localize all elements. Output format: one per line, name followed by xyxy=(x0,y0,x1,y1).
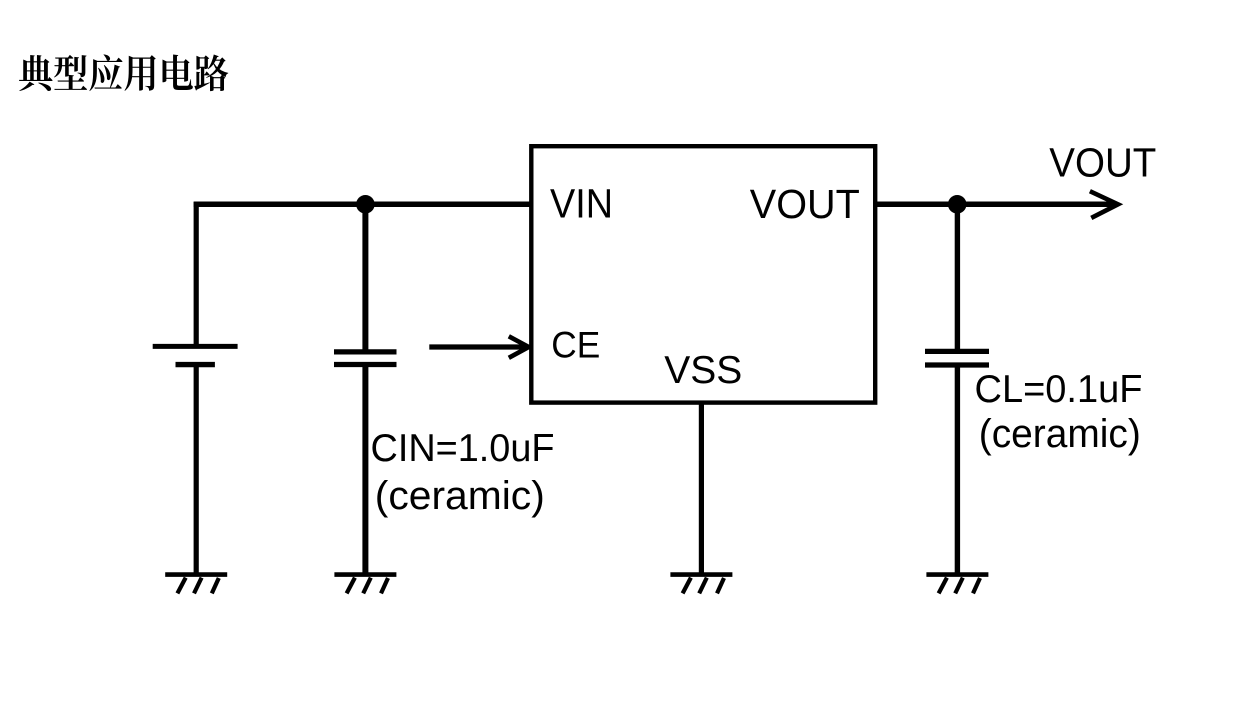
capacitor CL top plate xyxy=(925,349,989,354)
arrowhead into CE pin xyxy=(509,336,529,358)
ground (CL) xyxy=(926,575,988,594)
wire: CIN top lead xyxy=(362,204,368,352)
battery BT1 short plate xyxy=(176,362,215,367)
capacitor CL bottom plate xyxy=(925,362,989,367)
wire: CL top lead xyxy=(955,204,960,351)
wire: top rail from battery to VIN pin xyxy=(194,202,532,208)
node: input junction dot xyxy=(356,195,375,214)
wire: battery negative lead xyxy=(194,365,199,575)
wire: battery positive lead xyxy=(194,202,199,347)
svg-text:CE: CE xyxy=(551,325,600,366)
wire: CIN bottom lead xyxy=(362,365,368,575)
wire: VSS lead to ground xyxy=(699,403,704,575)
svg-text:VOUT: VOUT xyxy=(1049,140,1156,186)
ground (battery) xyxy=(165,575,227,594)
svg-text:(ceramic): (ceramic) xyxy=(375,474,545,518)
svg-text:VSS: VSS xyxy=(664,349,742,392)
svg-text:(ceramic): (ceramic) xyxy=(979,412,1141,456)
capacitor CIN bottom plate xyxy=(334,362,397,367)
battery BT1 long plate xyxy=(153,344,238,349)
svg-text:VOUT: VOUT xyxy=(750,181,860,227)
op-amp/regulator IC box U1 xyxy=(531,146,875,402)
ground (VSS) xyxy=(670,575,732,594)
arrowhead output VOUT xyxy=(1090,191,1118,218)
title 典型应用电路 xyxy=(19,54,228,91)
svg-text:CL=0.1uF: CL=0.1uF xyxy=(975,368,1143,411)
wire: CL bottom lead xyxy=(955,365,960,575)
node: output junction dot xyxy=(948,195,967,214)
wire: CE input with arrow xyxy=(429,344,526,349)
svg-text:VIN: VIN xyxy=(550,181,613,227)
capacitor CIN top plate xyxy=(334,349,397,354)
wire: VOUT rail to output xyxy=(875,202,1113,208)
svg-text:CIN=1.0uF: CIN=1.0uF xyxy=(371,427,555,470)
ground (CIN) xyxy=(334,575,396,594)
